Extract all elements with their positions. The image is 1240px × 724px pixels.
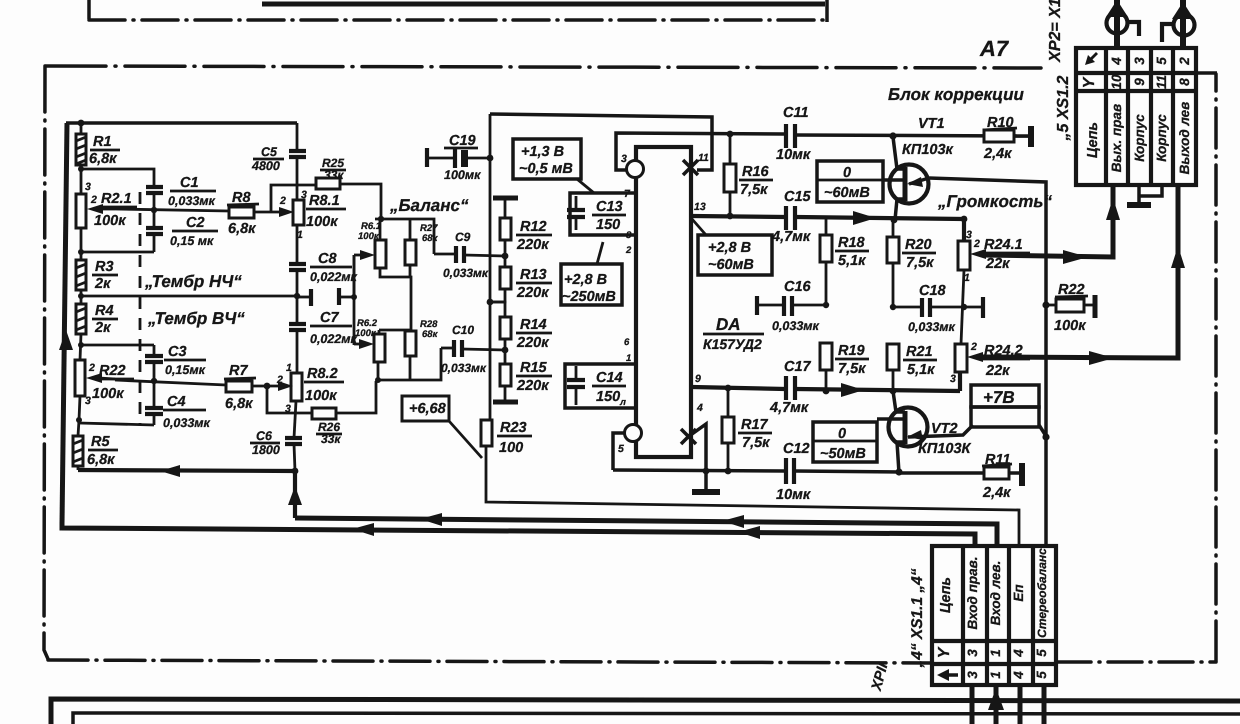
svg-text:VT1: VT1	[918, 116, 945, 132]
wire wiper R22 to R7	[115, 380, 226, 385]
pointer line from +6,68 box to R23	[449, 421, 482, 458]
svg-text:68к: 68к	[422, 233, 439, 244]
svg-text:220к: 220к	[516, 237, 549, 253]
capacitor C15	[784, 206, 788, 230]
svg-text:3: 3	[301, 189, 307, 201]
svg-text:R13: R13	[520, 267, 547, 283]
potentiometer R24.1	[962, 219, 966, 241]
svg-text:4: 4	[1109, 57, 1124, 66]
svg-text:100к: 100к	[355, 328, 377, 339]
node junction pin13 wire R24.1	[961, 216, 968, 223]
svg-text:0,022мк: 0,022мк	[310, 270, 358, 284]
svg-text:0,033мк: 0,033мк	[168, 194, 216, 208]
resistor R3	[76, 260, 86, 290]
potentiometer R2.1	[76, 194, 86, 228]
wire R4 bottom	[80, 334, 81, 360]
op-amp DA K157UD2 body	[636, 147, 691, 457]
resistor R5	[73, 436, 83, 466]
capacitor C14 box	[565, 364, 636, 408]
svg-text:R4: R4	[95, 303, 114, 319]
svg-text:„4“ XS1.1 „4“: „4“ XS1.1 „4“	[909, 568, 926, 668]
node junction R22 R5	[76, 417, 82, 423]
svg-text:R15: R15	[520, 360, 548, 376]
resistor R8	[229, 207, 254, 218]
svg-text:C7: C7	[320, 310, 339, 326]
wire R1 top	[80, 123, 83, 134]
pin 4 cross	[681, 429, 696, 444]
capacitor C16 with terminal	[755, 296, 759, 315]
balance bottom bar upper	[380, 268, 411, 330]
wire stub R27 top	[409, 219, 412, 240]
node junction R20 top	[891, 217, 898, 224]
svg-text:2,4к: 2,4к	[983, 146, 1012, 162]
svg-text:C11: C11	[783, 105, 809, 121]
svg-text:220к: 220к	[516, 335, 549, 351]
node junction balance top	[378, 216, 384, 222]
node junction C3 C4	[151, 378, 157, 384]
svg-text:А7: А7	[979, 36, 1010, 61]
resistor R23	[481, 420, 492, 446]
main block right dash-dot border	[1214, 74, 1218, 661]
wiper output wire R24.2 to XS1.2	[980, 186, 1178, 358]
svg-text:100к: 100к	[358, 231, 380, 242]
svg-text:220к: 220к	[516, 285, 549, 301]
svg-text:3: 3	[950, 373, 956, 385]
wiper arrow into R6.2	[354, 343, 362, 346]
gang dashed line of dual potentiometer	[139, 192, 142, 425]
svg-text:C4: C4	[167, 394, 186, 410]
main block bottom dash-dot border right part	[1057, 660, 1216, 664]
upper block border vertical right	[825, 0, 829, 22]
svg-text:3: 3	[965, 649, 980, 657]
svg-text:C13: C13	[596, 199, 623, 215]
svg-text:68к: 68к	[422, 329, 439, 340]
pin 9 wire	[692, 387, 785, 389]
wiper arrow into R6.1	[354, 254, 362, 257]
svg-text:C9: C9	[455, 230, 471, 244]
svg-text:C12: C12	[783, 441, 810, 457]
svg-text:100к: 100к	[94, 213, 126, 229]
svg-text:1: 1	[988, 671, 1003, 679]
svg-text:2: 2	[88, 362, 95, 374]
wire R22 bottom to R5	[78, 396, 80, 436]
svg-text:Корпус: Корпус	[1132, 114, 1147, 162]
svg-text:л: л	[619, 397, 626, 408]
capacitor C10	[441, 347, 453, 350]
potentiometer R6.2	[374, 334, 385, 362]
svg-text:100мк: 100мк	[444, 168, 481, 182]
node junction C18	[890, 304, 896, 310]
capacitor C17	[784, 376, 788, 400]
svg-text:0,033мк: 0,033мк	[163, 416, 211, 430]
capacitor C2	[153, 210, 156, 227]
svg-text:+2,8 В: +2,8 В	[564, 272, 607, 288]
wire R8.2 bottom to C6	[294, 401, 296, 438]
capacitor C13 box	[570, 193, 636, 235]
svg-text:~250мВ: ~250мВ	[562, 289, 616, 305]
capacitor C12	[784, 458, 788, 484]
wire tembr NCH to C7 node	[81, 295, 297, 298]
lower block inner top border	[73, 713, 1240, 724]
arrow up on left bus	[59, 330, 73, 350]
svg-text:4: 4	[1011, 671, 1026, 680]
terminal bar R11	[1019, 463, 1025, 486]
feedback wire A with left arrow	[78, 470, 295, 471]
svg-text:2: 2	[973, 238, 980, 250]
svg-text:+6,68: +6,68	[409, 401, 447, 417]
node junction VT1 top	[889, 132, 896, 139]
svg-text:C6: C6	[256, 429, 273, 443]
callout box +2,8V 250mV	[561, 264, 622, 305]
svg-text:7,5к: 7,5к	[906, 255, 934, 271]
resistor R7	[226, 381, 252, 392]
svg-text:R22: R22	[99, 363, 126, 379]
svg-text:3: 3	[85, 395, 91, 407]
node junction R2.1 bottom	[78, 249, 84, 255]
svg-text:5: 5	[1034, 671, 1049, 679]
svg-text:R2.1: R2.1	[101, 191, 132, 207]
pin 4 chassis stub	[692, 424, 706, 491]
svg-text:R23: R23	[500, 420, 527, 436]
resistor R26	[312, 408, 336, 419]
node junction tembr NCH wire	[78, 293, 84, 299]
node junction R22 volume line	[1042, 301, 1049, 308]
wire R5 bottom	[77, 466, 80, 470]
pointer from +1,3V box	[577, 179, 594, 193]
pin 3 input circle	[627, 161, 644, 178]
svg-text:Блок коррекции: Блок коррекции	[888, 85, 1025, 104]
svg-text:2,4к: 2,4к	[982, 485, 1011, 501]
potentiometer R8.1	[293, 200, 304, 225]
lower block outer top border	[51, 699, 1240, 724]
svg-text:R21: R21	[906, 344, 933, 360]
svg-text:11: 11	[698, 152, 709, 164]
pin 11 cross	[683, 160, 698, 175]
pin 5 input circle	[625, 425, 642, 442]
svg-text:Вых. прав: Вых. прав	[1109, 104, 1124, 172]
potentiometer R8.2	[291, 373, 302, 401]
node junction wire2 R16	[727, 131, 734, 138]
svg-text:C16: C16	[784, 279, 812, 295]
capacitor C1	[146, 185, 163, 189]
svg-text:22к: 22к	[985, 363, 1010, 379]
capacitor C18 with terminal	[893, 306, 920, 309]
svg-text:R7: R7	[229, 363, 248, 379]
svg-text:R24.1: R24.1	[984, 237, 1023, 253]
svg-text:R3: R3	[95, 259, 114, 275]
resistor R13	[500, 267, 511, 289]
svg-text:0: 0	[838, 426, 846, 442]
resistor R15	[500, 364, 511, 386]
bus wire B with left arrows	[295, 518, 997, 546]
wire to C1 top	[81, 169, 154, 186]
svg-text:8: 8	[1177, 78, 1192, 86]
wire1 top from x490 to pin 11	[490, 114, 712, 170]
resistor R14	[500, 317, 511, 339]
svg-text:2: 2	[90, 194, 97, 206]
terminal bar above R12	[493, 196, 518, 201]
potentiometer R24.2	[955, 344, 967, 372]
capacitor C19 terminal	[425, 148, 429, 167]
main block top border right stub to table	[1196, 71, 1217, 75]
svg-text:R8.2: R8.2	[307, 366, 338, 382]
resistor R16	[729, 134, 732, 164]
svg-text:13: 13	[694, 201, 706, 213]
svg-text:ХР2= Х1: ХР2= Х1	[1047, 0, 1064, 63]
svg-text:4,7мк: 4,7мк	[771, 229, 811, 245]
wire pin9 to R24.2 bottom	[958, 372, 962, 391]
node junction C10 chain	[502, 347, 509, 354]
svg-text:R20: R20	[905, 237, 932, 253]
capacitor C11	[784, 124, 788, 148]
svg-text:100к: 100к	[306, 214, 338, 230]
svg-text:100к: 100к	[92, 386, 124, 402]
svg-text:+2,8 В: +2,8 В	[708, 240, 751, 256]
svg-text:3: 3	[966, 229, 972, 241]
node junction C8 C7	[294, 293, 300, 299]
svg-text:Стереобаланс: Стереобаланс	[1035, 548, 1049, 638]
node junction C19	[487, 155, 494, 162]
capacitor C9	[434, 253, 454, 256]
svg-text:1: 1	[988, 649, 1003, 657]
svg-text:2к: 2к	[94, 276, 111, 292]
svg-text:6,8к: 6,8к	[87, 452, 115, 468]
svg-text:„5 XS1.2: „5 XS1.2	[1055, 75, 1072, 141]
svg-text:„Тембр НЧ“: „Тембр НЧ“	[144, 272, 242, 291]
svg-text:11: 11	[1154, 75, 1169, 89]
resistor R27	[405, 240, 416, 265]
svg-text:6,8к: 6,8к	[228, 221, 256, 237]
svg-text:6,8к: 6,8к	[225, 396, 253, 412]
svg-text:22к: 22к	[985, 256, 1010, 272]
svg-text:10мк: 10мк	[776, 487, 811, 503]
resistor R25	[316, 178, 340, 189]
svg-text:220к: 220к	[516, 378, 549, 394]
upper block inner solid line	[262, 2, 825, 7]
node junction R17	[725, 385, 732, 392]
left vertical bus	[62, 123, 67, 524]
node junction R16 bottom	[727, 213, 734, 220]
svg-text:+1,3 В: +1,3 В	[521, 144, 564, 160]
callout box +7V	[971, 385, 1039, 407]
svg-text:5,1к: 5,1к	[838, 253, 866, 269]
capacitor C3	[153, 345, 156, 355]
svg-text:~60мВ: ~60мВ	[824, 185, 870, 201]
node junction tembr VCH wire	[78, 342, 84, 348]
svg-text:9: 9	[1132, 78, 1147, 86]
svg-text:10: 10	[1109, 74, 1124, 90]
callout box +2,8V 60mV	[698, 235, 772, 275]
svg-text:R12: R12	[520, 219, 547, 235]
svg-text:33к: 33к	[324, 168, 344, 182]
svg-text:0: 0	[843, 165, 851, 181]
bottom jog wire to R26	[267, 386, 312, 413]
svg-text:2: 2	[970, 341, 977, 353]
svg-text:Корпус: Корпус	[1154, 114, 1169, 162]
main block left dash-dot border	[44, 66, 48, 659]
wire stub R6.1 top	[379, 219, 382, 240]
svg-text:2к: 2к	[94, 320, 111, 336]
XS1.2 cell texts	[1081, 53, 1192, 174]
svg-text:1: 1	[286, 362, 292, 374]
main block bottom dash-dot border left part	[48, 660, 931, 663]
svg-text:XPII: XPII	[869, 661, 892, 694]
vertical wire C6 to bus B	[293, 471, 297, 518]
svg-text:3: 3	[85, 181, 91, 193]
ground rail under IC	[613, 470, 785, 471]
wire R12 R13	[504, 240, 507, 267]
node junction lower balance	[375, 377, 381, 383]
wire R14 top from x490	[490, 302, 505, 317]
wire R14 R15	[504, 339, 507, 364]
svg-text:R19: R19	[838, 343, 865, 359]
svg-text:Y: Y	[936, 646, 953, 658]
wires XS1.1 to lower block	[970, 685, 975, 724]
svg-text:C17: C17	[784, 359, 812, 375]
svg-text:C18: C18	[919, 283, 947, 299]
wire to C4 bottom	[79, 423, 154, 425]
resistor R10	[984, 130, 1014, 142]
svg-text:4,7мк: 4,7мк	[769, 400, 809, 416]
svg-text:7,5к: 7,5к	[838, 361, 866, 377]
svg-text:4: 4	[696, 402, 703, 414]
svg-text:К157УД2: К157УД2	[703, 336, 762, 352]
svg-text:~50мВ: ~50мВ	[820, 446, 866, 462]
callout box +1,3V	[513, 139, 581, 179]
svg-text:3: 3	[621, 153, 627, 165]
svg-text:5: 5	[1034, 649, 1049, 657]
node junction C1 wiper wire	[151, 207, 157, 213]
svg-text:5: 5	[618, 443, 624, 455]
wire from R23 to Ep column	[486, 446, 1019, 546]
svg-text:R17: R17	[741, 417, 769, 433]
svg-text:+7В: +7В	[983, 388, 1015, 407]
svg-text:3: 3	[1132, 57, 1147, 65]
svg-text:C14: C14	[596, 370, 623, 386]
wire wiper R2.1 to R8	[115, 209, 229, 211]
resistor R21	[887, 344, 899, 370]
svg-text:Y: Y	[1081, 76, 1098, 88]
svg-text:Цепь: Цепь	[1085, 122, 1101, 158]
resistor R22 right	[1046, 304, 1056, 307]
wiper arrow R24.1	[970, 249, 986, 259]
wiper arrow R22 left	[86, 373, 102, 383]
svg-text:C8: C8	[318, 251, 337, 267]
pin 13 wire	[692, 216, 785, 217]
node junction VT2 drain line	[1042, 433, 1049, 440]
wire VT1 drain to volume line	[929, 178, 1046, 545]
XS1.2 korpus stub col4	[1140, 185, 1162, 196]
wiper feed vertical	[353, 255, 356, 345]
svg-text:2: 2	[279, 195, 286, 207]
svg-text:150: 150	[596, 217, 620, 233]
svg-text:Еп: Еп	[1011, 584, 1026, 602]
potentiometer R22 left	[75, 360, 85, 396]
wire R26 up to balance bottom bar	[336, 381, 376, 413]
lower balance bottom bar	[378, 348, 441, 380]
svg-text:5: 5	[1154, 57, 1169, 65]
capacitor C7	[296, 296, 299, 322]
VT2 drain wire to +7V node	[908, 425, 973, 437]
transistor VT1	[890, 165, 929, 204]
resistor R28	[405, 331, 416, 356]
node junction wire A	[292, 468, 299, 475]
svg-text:R1: R1	[93, 134, 112, 150]
svg-text:Цепь: Цепь	[938, 577, 954, 613]
svg-text:100: 100	[499, 440, 523, 456]
resistor R18	[825, 219, 828, 235]
connector table XS1.2	[1076, 48, 1196, 185]
capacitor C19	[453, 148, 457, 168]
terminal bar R10	[1028, 126, 1034, 147]
node junction C18 crossing	[961, 304, 967, 310]
XS1.1 cell texts	[936, 548, 1049, 681]
wiper arrow R24.2	[967, 352, 983, 362]
svg-text:„Громкость“: „Громкость“	[937, 192, 1053, 211]
svg-text:„Баланс“: „Баланс“	[389, 196, 469, 215]
upper block border vertical left	[87, 0, 91, 19]
wire R7 to R8.2 wiper	[252, 385, 280, 388]
svg-text:„Тембр ВЧ“: „Тембр ВЧ“	[147, 309, 245, 328]
svg-text:~0,5 мВ: ~0,5 мВ	[519, 161, 573, 177]
node junction pin4 rail	[703, 468, 710, 475]
wire R2.1 bottom to R3	[80, 252, 83, 260]
svg-text:100к: 100к	[1054, 318, 1086, 334]
node junction R21 bottom	[890, 388, 897, 395]
svg-text:0,033мк: 0,033мк	[443, 266, 489, 280]
resistor R12	[500, 218, 511, 240]
svg-text:0,022мк: 0,022мк	[310, 332, 358, 346]
svg-text:C15: C15	[784, 189, 812, 205]
resistor R17	[727, 388, 730, 417]
wire jog R8 to R25	[271, 185, 316, 212]
capacitor C6	[285, 436, 302, 440]
output coax pin left channel	[1180, 0, 1186, 48]
capacitor C4	[153, 381, 156, 407]
connector table XS1.1	[932, 546, 1056, 685]
node junction C9 chain	[502, 253, 509, 260]
callout box 0 50mV	[813, 422, 877, 462]
pointer from +2,8V box to pin 13 wire	[692, 219, 706, 235]
terminal bar R22 right	[1093, 295, 1098, 318]
node junction R1 bottom	[78, 166, 84, 172]
wiper arrow into R8.1	[279, 207, 294, 217]
wiper arrow R2.1	[87, 204, 103, 214]
svg-text:8: 8	[626, 230, 632, 241]
svg-text:0,033мк: 0,033мк	[772, 319, 820, 333]
svg-text:C3: C3	[168, 344, 187, 360]
svg-text:150: 150	[596, 389, 620, 405]
svg-text:C2: C2	[186, 215, 205, 231]
svg-text:1: 1	[626, 353, 631, 364]
resistor R11	[984, 467, 1009, 479]
svg-text:C10: C10	[452, 323, 474, 337]
svg-text:R14: R14	[520, 317, 547, 333]
svg-text:7,5к: 7,5к	[742, 435, 770, 451]
svg-text:C5: C5	[261, 145, 278, 159]
node junction R17 rail	[725, 468, 732, 475]
link R24.1 R24.2	[961, 270, 964, 344]
resistor R20	[892, 220, 895, 237]
wire R3 bottom	[80, 290, 83, 304]
svg-text:R5: R5	[91, 434, 110, 450]
svg-text:R8.1: R8.1	[309, 193, 340, 209]
svg-text:0,033мк: 0,033мк	[441, 361, 487, 375]
svg-text:33к: 33к	[321, 432, 341, 446]
resistor R19	[820, 343, 832, 370]
wire R13 bottom to x490	[490, 289, 505, 302]
bus wire C with left arrows	[62, 524, 975, 546]
